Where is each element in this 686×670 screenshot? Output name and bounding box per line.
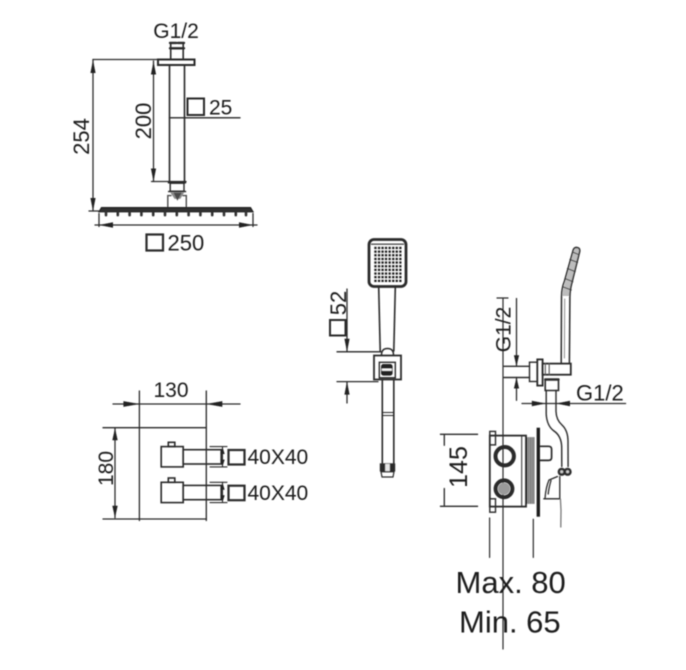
bracket bar (side): [543, 364, 571, 375]
dimension 200: [151, 61, 186, 182]
dimension G1/2 horizontal (hose outlet): [522, 401, 626, 407]
handle (side view stub): [540, 446, 552, 460]
label square 52 (rotated): [326, 291, 351, 336]
dimension 52 (bracket): [337, 289, 381, 403]
dimension 145: [440, 434, 477, 506]
handle 1 (top): [161, 442, 221, 467]
hand shower head: [369, 240, 406, 287]
svg-text:Min. 65: Min. 65: [459, 605, 561, 640]
dimension 180: [112, 428, 117, 518]
hand shower handle: [379, 287, 396, 351]
svg-text:180: 180: [95, 451, 118, 486]
plate vertical edges: [139, 391, 206, 521]
ball joint: [170, 192, 184, 199]
arm collar: [169, 182, 186, 191]
svg-text:G1/2: G1/2: [153, 20, 199, 43]
shower head plate: [99, 208, 253, 212]
trim plate (edge view, dark bar): [537, 428, 540, 517]
svg-text:40X40: 40X40: [248, 482, 309, 505]
spray nozzles: [106, 213, 246, 216]
svg-text:G1/2: G1/2: [493, 307, 516, 353]
svg-text:145: 145: [445, 446, 473, 488]
mixer bottom port (circle, plugged): [496, 480, 513, 497]
svg-text:250: 250: [168, 231, 205, 256]
holder arch: [382, 349, 394, 356]
label square 40X40 (top): [229, 446, 309, 469]
plate horizontal edges: [103, 428, 206, 519]
hose end fitting: [380, 463, 395, 477]
dimension 254: [89, 60, 157, 212]
dimension 130: [113, 401, 240, 407]
hose outlet (below bracket): [545, 380, 558, 391]
svg-text:200: 200: [131, 103, 156, 140]
ceiling flange: [158, 60, 195, 66]
shower hose: [382, 380, 394, 464]
mixer rough-in box (side): [490, 431, 526, 512]
supply pipe: [504, 362, 537, 381]
handle 2 (bottom): [161, 478, 221, 503]
svg-text:Max. 80: Max. 80: [456, 565, 566, 600]
svg-text:130: 130: [153, 379, 188, 402]
wall escutcheon (side): [537, 359, 542, 385]
inlet nipple with thread: [170, 43, 184, 60]
head connector: [168, 196, 187, 208]
centerline: [502, 298, 504, 649]
svg-text:G1/2: G1/2: [576, 381, 624, 406]
wall bracket: [374, 356, 401, 380]
hose (side), curving down to mixer: [546, 391, 568, 467]
shower arm (vertical): [170, 65, 185, 182]
hose nut (side): [558, 468, 572, 476]
mixer hose outlet funnel: [544, 477, 561, 528]
hand shower wand (side view): [561, 247, 580, 363]
dimension 40 (handle 2): [210, 482, 227, 502]
extension lines to Max/Min dimension: [490, 518, 534, 557]
wall hatch band: [527, 438, 534, 504]
dimension 250 (head width): [95, 214, 257, 228]
label square 250: [147, 231, 205, 256]
dimension 40 (handle 1): [210, 447, 227, 467]
label square 25 (arm cross-section): [170, 97, 241, 120]
svg-text:40X40: 40X40: [248, 446, 309, 469]
svg-text:254: 254: [69, 118, 94, 155]
spray face grid: [374, 247, 401, 282]
label square 40X40 (bottom): [229, 482, 309, 505]
svg-text:52: 52: [326, 291, 351, 315]
dimension G1/2 vertical arrows: [514, 299, 519, 401]
svg-text:25: 25: [209, 97, 232, 120]
mixer top port (circle): [496, 447, 514, 465]
